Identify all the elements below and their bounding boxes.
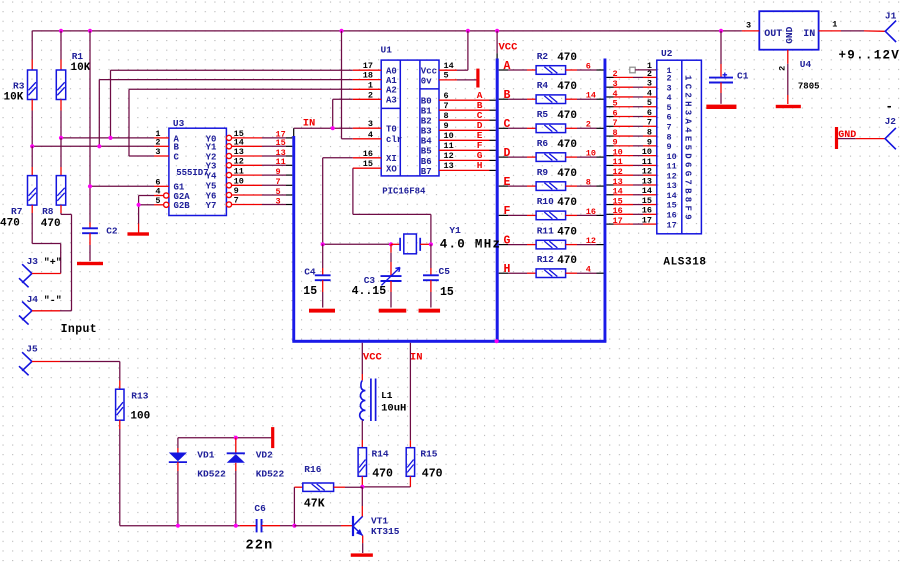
wire R2 to right bus — [566, 69, 577, 71]
svg-text:47K: 47K — [304, 498, 325, 511]
wire A3 net vertical — [332, 99, 334, 128]
svg-text:Y6: Y6 — [206, 191, 217, 201]
svg-text:470: 470 — [0, 218, 20, 230]
wire A0 net vertical — [110, 70, 112, 138]
svg-text:2: 2 — [613, 69, 618, 79]
wire clr net vertical from VCC rail — [341, 31, 343, 139]
svg-text:B1: B1 — [421, 107, 432, 117]
pin 15 (Y0) of U3 — [226, 135, 231, 140]
wire Y1 to bus — [232, 145, 262, 147]
svg-text:1: 1 — [368, 80, 373, 90]
svg-text:470: 470 — [372, 468, 393, 481]
wire bus to U2 pin 3 — [606, 86, 613, 88]
transistor VT1 KT315 — [352, 516, 354, 536]
wire Y7 to bus — [232, 204, 262, 206]
wire A1 net horizontal — [99, 79, 352, 81]
connector J2 — [885, 128, 896, 149]
svg-text:10: 10 — [444, 131, 454, 141]
svg-text:12: 12 — [667, 171, 677, 181]
svg-text:470: 470 — [557, 81, 577, 93]
wire bus to R9 — [499, 185, 508, 187]
svg-text:VCC: VCC — [363, 352, 383, 364]
resistor R15 — [409, 440, 411, 447]
resistor R2 — [536, 66, 566, 75]
svg-text:5: 5 — [647, 98, 652, 108]
node junction C6/R16/base — [292, 524, 296, 528]
node junction G1/VCC-drop — [88, 184, 92, 188]
wire C3 to ground — [390, 292, 392, 308]
svg-text:3: 3 — [746, 21, 751, 31]
net VCC vertical bus bar — [496, 31, 498, 53]
resistor R13 — [119, 381, 121, 390]
wire bus to U2 pin 5 — [606, 106, 613, 108]
svg-text:10K: 10K — [71, 62, 91, 74]
op-amp U3 555ID7 box — [169, 128, 227, 215]
wire node row R14-R15 — [362, 486, 410, 488]
svg-text:T0: T0 — [386, 125, 397, 135]
wire bus to U2 pin 2 — [606, 76, 613, 78]
node junction VD1/bottom — [176, 524, 180, 528]
connector J3 — [19, 264, 32, 287]
svg-text:8: 8 — [667, 132, 672, 142]
svg-text:10: 10 — [613, 147, 623, 157]
crystal Y1 — [391, 243, 400, 245]
node junction C4/crystal-row — [321, 242, 325, 246]
wire bus to U2 pin 14 — [606, 194, 613, 196]
pin 3 (T0) of U1 — [353, 127, 381, 129]
svg-text:XI: XI — [386, 154, 397, 164]
svg-text:5: 5 — [613, 99, 618, 109]
wire bus to R4 — [499, 98, 508, 100]
node junction Vcc-pin14/top-rail — [466, 29, 470, 33]
svg-text:15: 15 — [303, 285, 317, 298]
svg-text:B3: B3 — [421, 127, 432, 137]
svg-text:13: 13 — [642, 176, 652, 186]
svg-text:C4: C4 — [304, 266, 316, 277]
wire R1-R8 link — [60, 138, 62, 167]
svg-text:R11: R11 — [537, 225, 554, 236]
resistor R4 — [536, 95, 566, 104]
transistor U1 PIC16F84 box — [381, 60, 439, 176]
node junction A3/IN — [331, 126, 335, 130]
svg-text:11: 11 — [444, 141, 454, 151]
svg-text:17: 17 — [642, 216, 652, 226]
svg-text:D: D — [504, 147, 511, 160]
pin 7 (B1) of U1 — [439, 109, 457, 111]
svg-text:R7: R7 — [11, 206, 23, 217]
svg-text:16: 16 — [667, 211, 677, 221]
wire G2B row — [139, 204, 154, 206]
svg-text:A: A — [504, 60, 511, 73]
svg-text:17: 17 — [667, 220, 677, 230]
wire Y3 to bus — [232, 164, 262, 166]
wire A2 net horizontal — [129, 88, 353, 90]
svg-text:5: 5 — [276, 187, 281, 197]
wire A0 net horizontal — [111, 69, 353, 71]
svg-text:7: 7 — [667, 123, 672, 133]
svg-text:4: 4 — [613, 89, 618, 99]
display U2 ALS318 box — [657, 60, 702, 234]
wire bus to U2 pin 4 — [606, 96, 613, 98]
wire Y5 to bus — [232, 184, 262, 186]
svg-text:G: G — [504, 234, 511, 247]
wire Y4 to bus — [232, 174, 262, 176]
wire R3 top — [31, 31, 33, 60]
wire Vcc pin14 to rail — [457, 69, 468, 71]
svg-text:R10: R10 — [537, 196, 554, 207]
svg-text:R6: R6 — [537, 138, 549, 149]
svg-text:15: 15 — [276, 138, 286, 148]
wire bus to R5 — [499, 127, 508, 129]
svg-text:2: 2 — [778, 66, 788, 71]
ground of VT1 — [351, 553, 373, 556]
svg-text:12: 12 — [586, 236, 596, 246]
pin 14 (Vcc) of U1 — [439, 69, 457, 71]
svg-text:Y3: Y3 — [206, 162, 217, 172]
svg-text:B4: B4 — [421, 137, 432, 147]
svg-text:2: 2 — [368, 90, 373, 100]
resistor R1 — [60, 60, 62, 71]
svg-text:6: 6 — [613, 108, 618, 118]
no-connect square at U2 pin 1 — [630, 67, 635, 73]
wire R7 to J3 — [31, 213, 33, 244]
svg-text:9: 9 — [667, 142, 672, 152]
svg-text:4.0 MHz: 4.0 MHz — [440, 238, 502, 252]
svg-text:14: 14 — [667, 191, 677, 201]
svg-text:4: 4 — [368, 130, 373, 140]
svg-text:16: 16 — [586, 207, 596, 217]
pin 4 (clr) of U1 — [353, 138, 381, 140]
resistor R6 — [536, 153, 566, 162]
svg-text:14: 14 — [642, 186, 652, 196]
wire R3 bottom to node B — [31, 111, 33, 147]
svg-text:KD522: KD522 — [256, 469, 285, 480]
power flag GND — [835, 127, 838, 149]
svg-text:F: F — [504, 205, 511, 218]
wire C2 to ground — [89, 245, 91, 261]
svg-text:3: 3 — [368, 119, 373, 129]
svg-text:15: 15 — [440, 286, 454, 299]
svg-text:R16: R16 — [304, 464, 321, 475]
svg-text:1: 1 — [647, 61, 652, 71]
capacitor C4 — [322, 244, 324, 268]
wire bus to U2 pin 6 — [606, 116, 613, 118]
svg-text:Y7: Y7 — [206, 201, 217, 211]
svg-text:Y5: Y5 — [206, 182, 217, 192]
svg-text:22n: 22n — [246, 538, 274, 553]
svg-text:3: 3 — [613, 79, 618, 89]
pin 10 (Y5) of U3 — [226, 183, 231, 188]
wire G1 row from VCC drop — [90, 185, 154, 187]
node junction A1-vert/B-row — [97, 144, 101, 148]
resistor R16 — [294, 486, 302, 488]
wire A3 net horizontal — [333, 98, 353, 100]
pin 18 (A1) of U1 — [353, 79, 381, 81]
svg-text:C2: C2 — [106, 226, 118, 237]
resistor R10 — [536, 211, 566, 220]
wire bus to U2 pin 13 — [606, 184, 613, 186]
wire bus to U2 pin 17 — [606, 223, 613, 225]
wire bus to R11 — [499, 244, 508, 246]
svg-text:7: 7 — [647, 118, 652, 128]
wire R1 bottom to node A — [60, 111, 62, 138]
wire R10 to right bus — [566, 214, 577, 216]
svg-text:H: H — [504, 263, 511, 276]
svg-text:J2: J2 — [885, 116, 897, 127]
resistor R11 — [536, 240, 566, 249]
svg-text:470: 470 — [422, 468, 443, 481]
svg-text:6: 6 — [647, 108, 652, 118]
svg-text:4: 4 — [647, 88, 652, 98]
wire R5 to right bus — [566, 127, 577, 129]
wire H segment from U1 to bus — [457, 169, 490, 171]
pin 2 (B) of U3 — [154, 145, 169, 147]
svg-text:J3: J3 — [27, 256, 39, 267]
pin 5 (0v) of U1 — [439, 79, 457, 81]
svg-text:10: 10 — [642, 147, 652, 157]
svg-text:8: 8 — [647, 127, 652, 137]
svg-text:555ID7: 555ID7 — [176, 168, 208, 178]
wire bus to U2 pin 11 — [606, 164, 613, 166]
svg-text:U4: U4 — [800, 59, 812, 70]
svg-text:U2: U2 — [661, 48, 673, 59]
wire R8 to J4 — [60, 213, 62, 214]
svg-text:R15: R15 — [420, 448, 437, 459]
svg-text:15: 15 — [613, 196, 623, 206]
wire bus to R2 — [499, 69, 508, 71]
wire C4 to ground — [322, 292, 324, 308]
node junction R1/top-rail — [59, 29, 63, 33]
svg-text:11: 11 — [276, 157, 286, 167]
wire VCC top rail — [32, 30, 742, 32]
pin 12 (Y3) of U3 — [226, 163, 231, 168]
diode VD2 — [235, 438, 237, 453]
svg-text:C6: C6 — [254, 503, 266, 514]
svg-text:5: 5 — [444, 71, 449, 81]
svg-text:6: 6 — [586, 61, 591, 71]
svg-text:3: 3 — [155, 147, 160, 157]
svg-text:9: 9 — [647, 137, 652, 147]
power flag right of diode wire — [271, 427, 274, 448]
node junction C1/top-rail — [719, 29, 723, 33]
svg-text:KT315: KT315 — [371, 526, 400, 537]
svg-text:5: 5 — [155, 196, 160, 206]
svg-text:clr: clr — [386, 135, 402, 145]
pin 15 (XO) of U1 — [353, 167, 381, 169]
svg-text:J4: J4 — [27, 294, 39, 305]
svg-text:L1: L1 — [381, 390, 393, 401]
right bus bar — [604, 59, 607, 342]
svg-text:7: 7 — [613, 118, 618, 128]
svg-text:13: 13 — [613, 177, 623, 187]
svg-text:VD1: VD1 — [197, 450, 214, 461]
connector J4 — [19, 302, 32, 325]
pin 14 (Y1) of U3 — [226, 144, 231, 149]
bus bottom rail blue — [292, 340, 606, 343]
svg-text:9: 9 — [444, 121, 449, 131]
ground of C5 — [419, 309, 441, 313]
wire bus to U2 pin 16 — [606, 213, 613, 215]
pin 2 (A3) of U1 — [353, 98, 381, 100]
svg-text:3: 3 — [276, 196, 281, 206]
svg-text:16: 16 — [642, 206, 652, 216]
svg-text:12: 12 — [613, 167, 623, 177]
wire A segment from U1 to bus — [457, 99, 490, 101]
wire R11 to right bus — [566, 244, 577, 246]
wire E segment from U1 to bus — [457, 139, 490, 141]
svg-text:R3: R3 — [13, 81, 25, 92]
wire Y2 to bus — [232, 155, 262, 157]
pin 11 (B5) of U1 — [439, 149, 457, 151]
svg-text:12: 12 — [444, 151, 454, 161]
wire 0v pin5 — [457, 79, 478, 81]
svg-text:1: 1 — [832, 20, 837, 30]
svg-text:9: 9 — [276, 167, 281, 177]
wire bus to U2 pin 10 — [606, 155, 613, 157]
svg-text:4..15: 4..15 — [352, 285, 387, 298]
wire clr net horizontal — [342, 138, 353, 140]
wire collector of VT1 — [361, 487, 363, 506]
wire U3 input A row — [61, 137, 154, 139]
svg-text:B7: B7 — [421, 167, 432, 177]
wire R16 left down to base row — [293, 487, 295, 526]
regulator U4 7805 box — [759, 11, 818, 50]
svg-text:8: 8 — [586, 178, 591, 188]
resistor R12 — [536, 269, 566, 278]
svg-text:ALS318: ALS318 — [663, 257, 706, 269]
resistor R8 — [60, 167, 62, 176]
pin 1 (A) of U3 — [154, 137, 169, 139]
wire square to U2 pin1 — [635, 69, 657, 71]
svg-text:GND: GND — [838, 130, 856, 141]
wire A1 net vertical — [98, 80, 100, 147]
wire U3 input B row — [32, 145, 154, 147]
svg-text:4: 4 — [667, 93, 672, 103]
wire bus to U2 pin 12 — [606, 174, 613, 176]
svg-text:14: 14 — [444, 61, 454, 71]
svg-text:18: 18 — [363, 71, 373, 81]
svg-text:3: 3 — [647, 79, 652, 89]
connector J5 — [19, 352, 32, 375]
wire Y6 to bus — [232, 194, 262, 196]
pin 6 (B0) of U1 — [439, 99, 457, 101]
wire bus to R12 — [499, 272, 508, 274]
svg-text:7: 7 — [276, 177, 281, 187]
svg-text:15: 15 — [667, 201, 677, 211]
svg-text:R1: R1 — [72, 51, 84, 62]
svg-text:"-": "-" — [44, 295, 62, 307]
svg-text:PIC16F84: PIC16F84 — [382, 187, 426, 197]
svg-text:B5: B5 — [421, 147, 432, 157]
svg-text:470: 470 — [41, 218, 61, 230]
svg-text:R13: R13 — [131, 390, 148, 401]
ground of G2A/G2B — [138, 224, 140, 233]
node junction VD2/top — [234, 436, 238, 440]
svg-text:15: 15 — [642, 196, 652, 206]
svg-text:13: 13 — [444, 161, 454, 171]
resistor R14 — [361, 440, 363, 448]
svg-text:100: 100 — [130, 411, 150, 423]
pin 3 (C) of U3 — [154, 155, 169, 157]
wire R13 to bottom rail — [119, 429, 121, 526]
wire bottom rail left — [120, 525, 240, 527]
svg-text:11: 11 — [613, 157, 623, 167]
ground of C1 — [706, 105, 736, 109]
svg-text:B: B — [174, 143, 180, 153]
resistor R3 — [31, 60, 33, 71]
resistor R9 — [536, 182, 566, 191]
pin 9 (B3) of U1 — [439, 129, 457, 131]
resistor R7 — [31, 167, 33, 176]
wire B segment from U1 to bus — [457, 109, 490, 111]
pin 1 of U4 — [819, 30, 841, 32]
svg-text:470: 470 — [557, 110, 577, 122]
svg-text:A3: A3 — [386, 96, 397, 106]
svg-text:A1: A1 — [386, 76, 397, 86]
svg-text:R12: R12 — [537, 254, 554, 265]
svg-text:10: 10 — [586, 149, 596, 159]
pin 2 of U4 — [787, 50, 789, 64]
wire XO net — [352, 168, 354, 214]
svg-text:14: 14 — [613, 187, 623, 197]
node junction R3/B-row — [30, 144, 34, 148]
svg-text:VD2: VD2 — [256, 450, 273, 461]
wire GND to J2 — [838, 138, 856, 140]
svg-text:4: 4 — [586, 265, 591, 275]
pin 8 (B2) of U1 — [439, 119, 457, 121]
node junction A0-vert/A-row — [108, 136, 112, 140]
svg-text:9: 9 — [613, 138, 618, 148]
wire R3-R7 link — [31, 146, 33, 167]
svg-text:XO: XO — [386, 165, 397, 175]
wire VD1 to bottom rail — [177, 471, 179, 526]
svg-text:7: 7 — [444, 101, 449, 111]
wire bus to U2 pin 9 — [606, 145, 613, 147]
wire G segment from U1 to bus — [457, 159, 490, 161]
wire XI net — [323, 157, 353, 159]
svg-text:13: 13 — [667, 181, 677, 191]
svg-text:10: 10 — [667, 152, 677, 162]
pin 5 (G2B) of U3 — [164, 202, 169, 207]
capacitor C6 — [240, 525, 257, 527]
svg-text:12: 12 — [642, 167, 652, 177]
wire A2 net vertical — [128, 89, 130, 156]
svg-text:J1: J1 — [885, 11, 897, 22]
node junction VD2/bottom — [234, 524, 238, 528]
svg-text:C: C — [174, 152, 180, 162]
left bus bar — [292, 136, 295, 341]
svg-text:B2: B2 — [421, 117, 432, 127]
svg-text:470: 470 — [557, 52, 577, 64]
svg-text:10uH: 10uH — [381, 403, 406, 415]
wire F segment from U1 to bus — [457, 149, 490, 151]
pin 11 (Y4) of U3 — [226, 173, 231, 178]
pin 13 (Y2) of U3 — [226, 153, 231, 158]
svg-text:R2: R2 — [537, 51, 549, 62]
svg-text:A2: A2 — [386, 86, 397, 96]
svg-text:B: B — [504, 89, 511, 102]
wire VCC drop to G1 and C2 — [89, 31, 91, 186]
svg-text:Y1: Y1 — [206, 143, 217, 153]
wire rail to C1 — [720, 31, 722, 64]
wire Y0 to bus — [232, 137, 262, 139]
svg-text:16: 16 — [363, 149, 373, 159]
pin 13 (B7) of U1 — [439, 169, 457, 171]
pin 3 of U4 — [742, 30, 759, 32]
node junction G2A-vert/G2B-row — [137, 203, 141, 207]
wire IN from bus top — [293, 128, 295, 136]
svg-text:470: 470 — [557, 197, 577, 209]
